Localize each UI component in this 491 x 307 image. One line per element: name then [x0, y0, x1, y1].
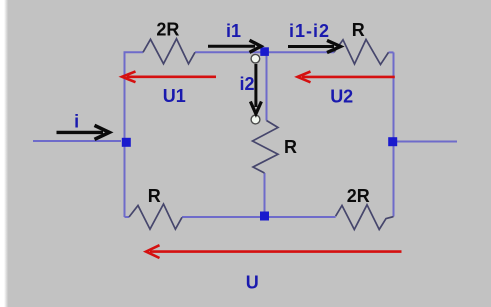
- svg-text:i1: i1: [226, 21, 241, 41]
- svg-text:U: U: [246, 272, 259, 292]
- svg-text:2R: 2R: [347, 186, 370, 206]
- svg-text:i2: i2: [239, 74, 254, 94]
- svg-text:i: i: [74, 112, 79, 132]
- svg-text:R: R: [284, 137, 297, 157]
- svg-text:2R: 2R: [156, 19, 179, 39]
- svg-text:R: R: [352, 20, 365, 40]
- svg-text:R: R: [148, 186, 161, 206]
- svg-text:U2: U2: [330, 86, 353, 106]
- svg-text:i1-i2: i1-i2: [289, 21, 330, 41]
- svg-text:U1: U1: [163, 86, 186, 106]
